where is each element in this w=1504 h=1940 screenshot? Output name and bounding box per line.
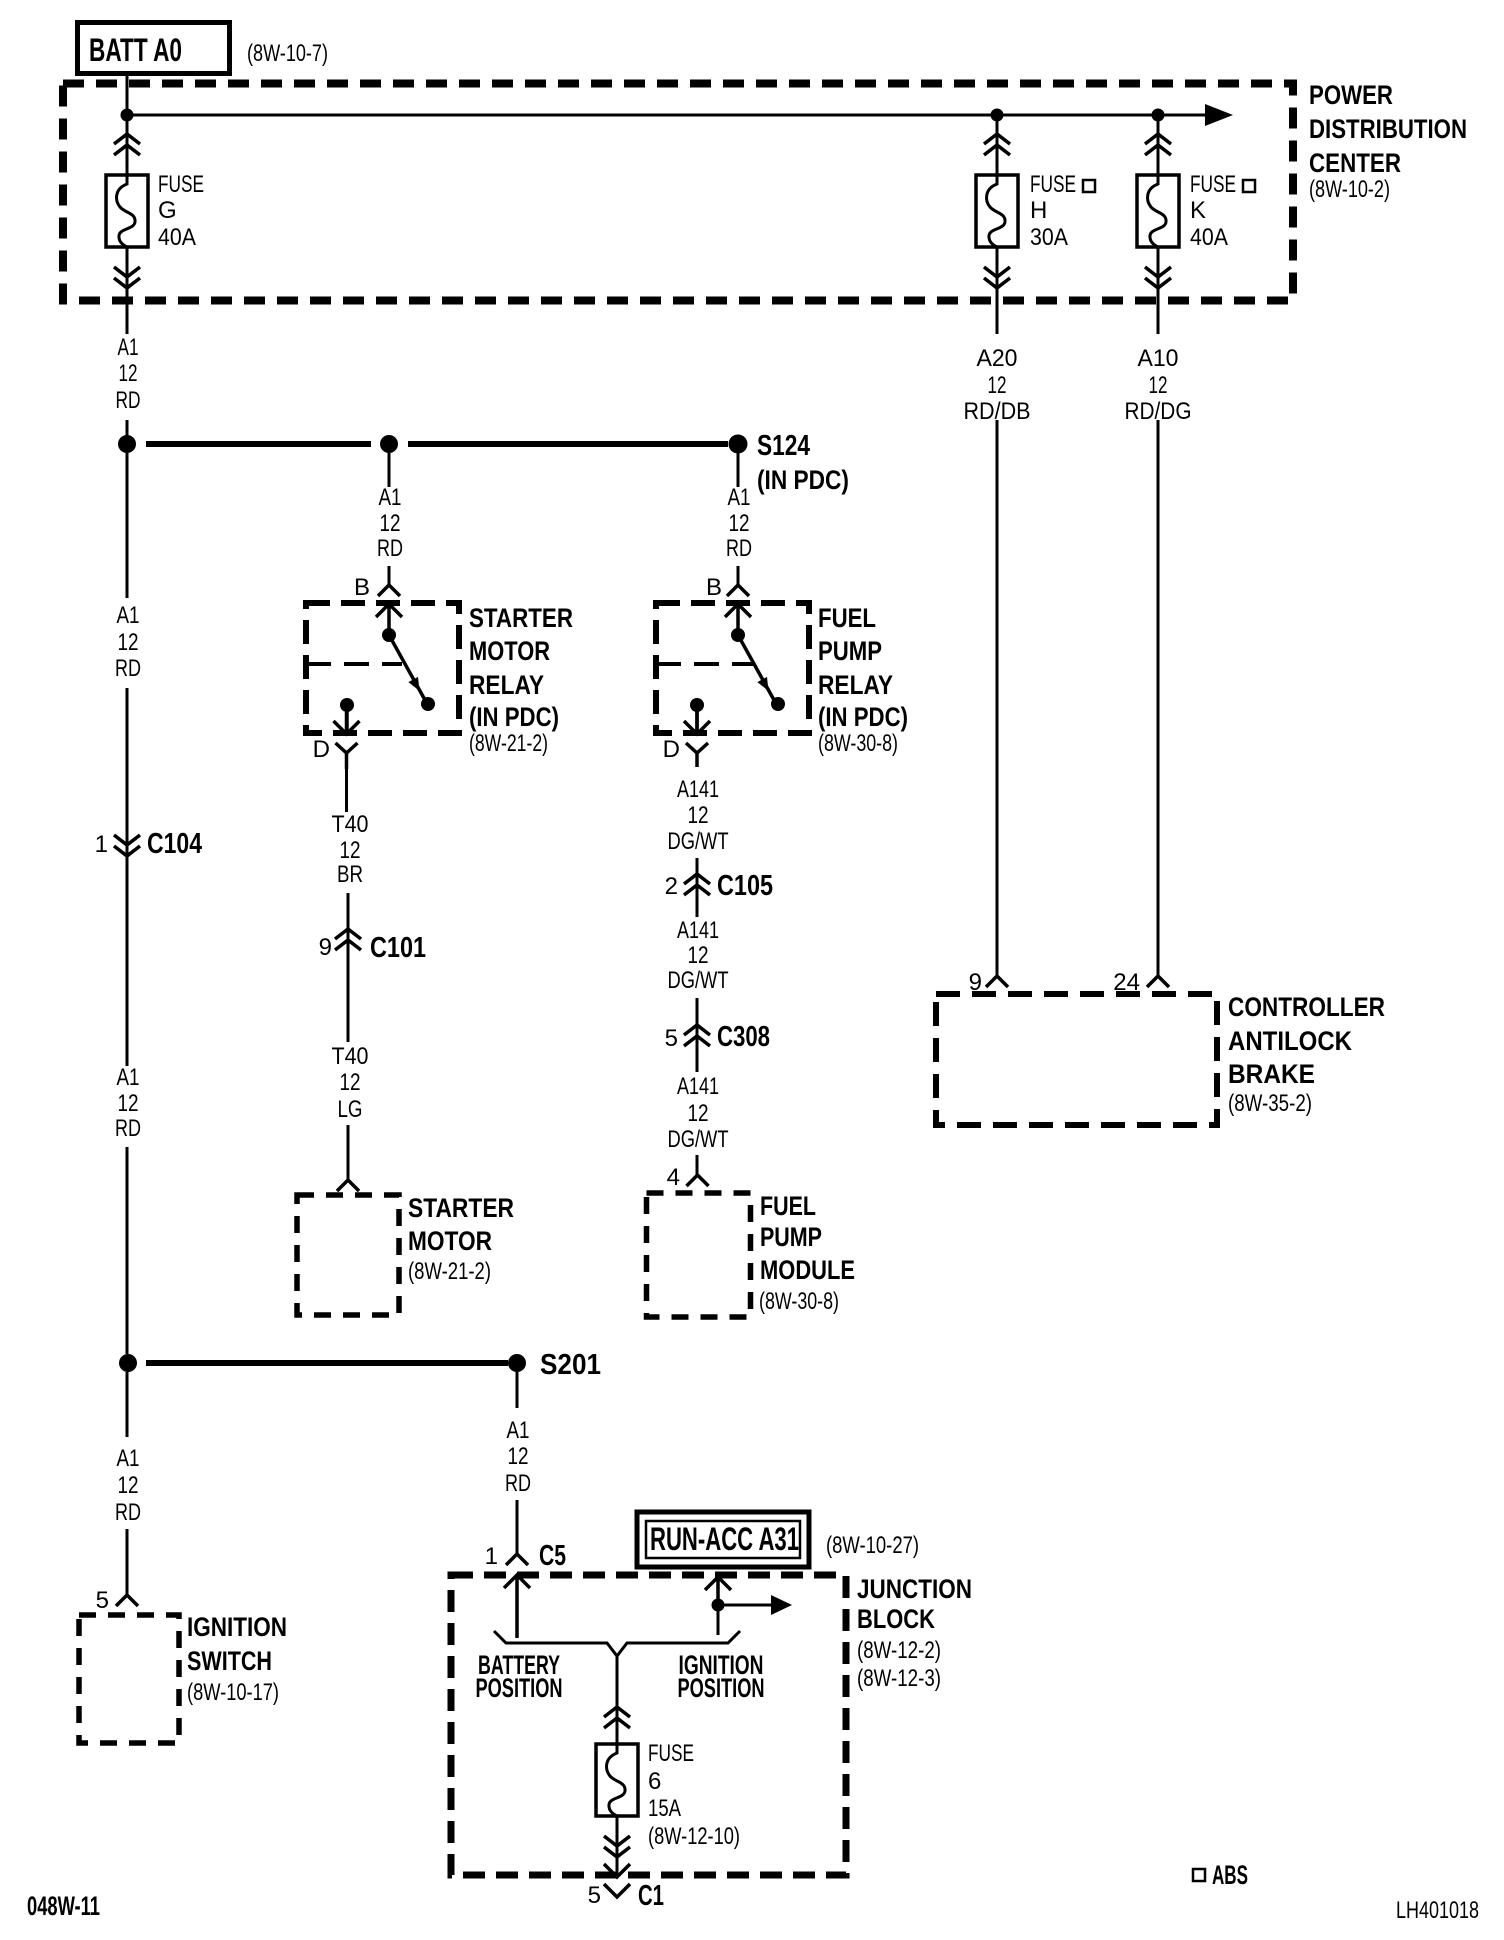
svg-text:T40: T40	[332, 1043, 369, 1070]
pin B connector	[378, 585, 400, 596]
legend ABS	[1193, 1869, 1205, 1881]
svg-text:RD: RD	[505, 1470, 531, 1497]
wire to starter motor	[347, 1125, 350, 1180]
svg-text:PUMP: PUMP	[818, 636, 882, 666]
svg-text:LG: LG	[338, 1096, 363, 1123]
svg-text:(8W-10-27): (8W-10-27)	[826, 1532, 919, 1559]
svg-text:JUNCTION: JUNCTION	[857, 1574, 972, 1604]
wire below fuse	[1157, 247, 1160, 334]
svg-text:BR: BR	[337, 861, 363, 888]
svg-text:FUSE: FUSE	[1030, 171, 1076, 198]
relay common contact	[731, 628, 745, 642]
relay pin B male arrow	[376, 604, 402, 632]
relay NO contact	[771, 697, 785, 711]
relay: starter motor relay box	[306, 603, 459, 733]
arrowhead to other circuits	[771, 1595, 792, 1615]
legend square	[1243, 180, 1255, 192]
svg-text:A1: A1	[117, 1445, 140, 1472]
wire to ignition switch	[126, 1529, 129, 1595]
svg-text:D: D	[663, 736, 680, 763]
relay pin B male arrow	[725, 604, 751, 632]
svg-text:STARTER: STARTER	[408, 1193, 514, 1223]
svg-text:FUEL: FUEL	[818, 603, 876, 633]
svg-text:1: 1	[485, 1543, 498, 1570]
svg-text:12: 12	[729, 510, 750, 537]
svg-text:(8W-35-2): (8W-35-2)	[1228, 1090, 1312, 1117]
splice S124 bus left segment	[146, 441, 371, 447]
fuse H branch wire	[996, 115, 999, 176]
svg-text:(8W-21-2): (8W-21-2)	[408, 1258, 491, 1285]
svg-text:(8W-10-7): (8W-10-7)	[247, 40, 328, 67]
fuse K 40A	[1137, 175, 1179, 247]
svg-text:PUMP: PUMP	[760, 1222, 822, 1252]
relay pin D male arrow	[334, 712, 360, 734]
CAB pin 9 connector	[986, 976, 1008, 987]
node S124	[729, 435, 748, 454]
relay output contact	[690, 698, 704, 712]
svg-text:(8W-21-2): (8W-21-2)	[469, 730, 548, 757]
junction block box	[451, 1575, 846, 1875]
svg-text:T40: T40	[332, 811, 369, 838]
connector C5	[506, 1554, 528, 1565]
junction at fuse K	[1152, 109, 1165, 122]
svg-text:12: 12	[118, 1472, 139, 1499]
relay output contact	[340, 698, 354, 712]
svg-text:C105: C105	[717, 870, 773, 902]
svg-text:40A: 40A	[1190, 224, 1228, 251]
svg-text:C104: C104	[147, 828, 202, 860]
svg-text:(8W-12-2): (8W-12-2)	[857, 1637, 941, 1664]
svg-text:DG/WT: DG/WT	[668, 828, 729, 855]
Power Distribution Center box	[63, 84, 1293, 301]
svg-text:(8W-10-17): (8W-10-17)	[187, 1679, 279, 1706]
relay movable contact	[389, 635, 425, 700]
wire to other circuits	[724, 1604, 771, 1607]
wire A10 down to CAB pin 24	[1157, 420, 1160, 976]
svg-text:5: 5	[665, 1025, 678, 1052]
svg-text:DG/WT: DG/WT	[668, 1126, 729, 1153]
wire A1 left column	[126, 453, 129, 598]
svg-text:FUSE: FUSE	[1190, 171, 1236, 198]
svg-text:(8W-30-8): (8W-30-8)	[818, 730, 898, 757]
svg-text:4: 4	[667, 1164, 680, 1191]
svg-text:(IN PDC): (IN PDC)	[469, 702, 559, 732]
svg-text:12: 12	[1149, 372, 1168, 399]
node S201	[508, 1354, 526, 1372]
svg-text:RD: RD	[116, 387, 141, 414]
wire below S201	[126, 1372, 129, 1437]
junction dot S124 left	[118, 435, 136, 453]
controller antilock brake box	[936, 994, 1217, 1125]
wire to fuel pump module	[696, 1155, 699, 1175]
svg-text:S124: S124	[757, 430, 810, 462]
fuse 6 15A	[596, 1744, 638, 1816]
svg-text:MOTOR: MOTOR	[469, 636, 550, 666]
svg-text:ANTILOCK: ANTILOCK	[1228, 1026, 1352, 1056]
svg-text:IGNITION: IGNITION	[187, 1612, 287, 1642]
svg-text:SWITCH: SWITCH	[187, 1646, 272, 1676]
svg-text:12: 12	[340, 1069, 361, 1096]
svg-text:40A: 40A	[158, 224, 196, 251]
svg-text:DG/WT: DG/WT	[668, 967, 729, 994]
svg-text:A141: A141	[677, 917, 719, 944]
svg-text:FUEL: FUEL	[760, 1191, 816, 1221]
svg-text:BATT A0: BATT A0	[89, 32, 182, 68]
svg-text:RD: RD	[115, 655, 141, 682]
svg-text:CONTROLLER: CONTROLLER	[1228, 992, 1385, 1022]
pin D connector	[336, 743, 358, 769]
fuel pump module box	[647, 1193, 751, 1317]
svg-text:MODULE: MODULE	[760, 1255, 855, 1285]
svg-text:A10: A10	[1138, 345, 1179, 372]
svg-text:12: 12	[988, 372, 1007, 399]
svg-text:12: 12	[118, 629, 139, 656]
svg-text:12: 12	[508, 1443, 529, 1470]
relay: fuel pump relay box	[656, 603, 809, 733]
wire from S124 to fuel pump relay	[737, 453, 740, 487]
svg-text:2: 2	[665, 873, 678, 900]
svg-text:1: 1	[95, 831, 108, 858]
bus bracket	[494, 1631, 740, 1656]
svg-text:12: 12	[118, 1090, 139, 1117]
chevron at junction block edge	[604, 1864, 630, 1877]
svg-text:CENTER: CENTER	[1309, 148, 1401, 178]
wire stub to S124	[126, 420, 129, 436]
wire through C104	[126, 688, 129, 858]
wire to relay pin B	[388, 566, 391, 585]
svg-text:RUN-ACC A31: RUN-ACC A31	[650, 1521, 799, 1557]
wire below C104	[126, 858, 129, 1066]
svg-text:B: B	[354, 574, 370, 601]
bus arrowhead	[1205, 104, 1233, 126]
relay internal divider	[306, 662, 402, 666]
wire from S124 to starter relay	[388, 453, 391, 487]
starter motor pin connector	[337, 1180, 359, 1191]
svg-text:A20: A20	[977, 345, 1018, 372]
relay movable contact	[738, 635, 774, 700]
battery position feed arrow	[504, 1575, 530, 1638]
svg-text:RD: RD	[115, 1115, 141, 1142]
wire A20 down to CAB pin 9	[996, 420, 999, 976]
svg-text:C1: C1	[638, 1880, 664, 1912]
relay contact arrowhead	[757, 677, 773, 694]
svg-text:6: 6	[648, 1768, 661, 1795]
svg-text:FUSE: FUSE	[158, 171, 204, 198]
svg-text:ABS: ABS	[1212, 1860, 1248, 1890]
svg-text:(8W-12-3): (8W-12-3)	[857, 1665, 941, 1692]
svg-text:(8W-30-8): (8W-30-8)	[759, 1288, 839, 1315]
relay NO contact	[421, 697, 435, 711]
svg-text:RELAY: RELAY	[818, 670, 893, 700]
splice S201 bus	[146, 1360, 508, 1366]
wire to C1	[616, 1816, 619, 1876]
fuel pump module pin connector	[687, 1175, 709, 1186]
wire below fuse	[996, 247, 999, 334]
wire to relay pin B	[737, 566, 740, 585]
svg-text:5: 5	[96, 1587, 109, 1614]
svg-text:BRAKE: BRAKE	[1228, 1059, 1315, 1089]
junction at fuse G	[121, 109, 134, 122]
svg-text:MOTOR: MOTOR	[408, 1226, 492, 1256]
fuse G branch wire	[126, 74, 129, 176]
svg-text:(8W-12-10): (8W-12-10)	[648, 1823, 740, 1850]
svg-text:A1: A1	[118, 334, 139, 361]
svg-text:POSITION: POSITION	[678, 1673, 765, 1703]
svg-text:RELAY: RELAY	[469, 670, 544, 700]
CAB pin 24 connector	[1147, 976, 1169, 987]
fuse K branch wire	[1157, 115, 1160, 176]
ignition switch pin connector	[116, 1595, 138, 1606]
svg-text:H: H	[1030, 197, 1047, 224]
svg-text:G: G	[158, 197, 177, 224]
wire through C308	[696, 998, 699, 1072]
starter motor box	[297, 1195, 399, 1315]
svg-text:BLOCK: BLOCK	[857, 1604, 935, 1634]
wire to C5	[516, 1500, 519, 1554]
pin B connector	[727, 585, 749, 596]
svg-text:RD: RD	[726, 535, 752, 562]
svg-text:048W-11: 048W-11	[27, 1891, 100, 1921]
svg-text:(IN PDC): (IN PDC)	[757, 465, 849, 495]
svg-text:A1: A1	[507, 1417, 530, 1444]
wire below fuse	[126, 247, 129, 334]
svg-text:A1: A1	[379, 484, 402, 511]
svg-text:12: 12	[688, 802, 709, 829]
svg-text:POWER: POWER	[1309, 80, 1393, 110]
svg-text:A1: A1	[117, 602, 140, 629]
svg-text:POSITION: POSITION	[476, 1673, 563, 1703]
fuse block RUN-ACC A31 box	[637, 1512, 809, 1567]
svg-text:A141: A141	[677, 776, 719, 803]
junction dot S124 middle	[380, 435, 398, 453]
svg-text:30A: 30A	[1030, 224, 1068, 251]
svg-text:(8W-10-2): (8W-10-2)	[1309, 176, 1390, 203]
ignition position feed arrow	[705, 1577, 731, 1599]
wire through C101	[347, 893, 350, 1042]
relay common contact	[382, 628, 396, 642]
svg-text:S201: S201	[540, 1349, 601, 1381]
svg-text:K: K	[1190, 197, 1206, 224]
splice S124 bus right segment	[408, 441, 728, 447]
svg-text:A1: A1	[117, 1064, 140, 1091]
svg-text:RD: RD	[115, 1499, 141, 1526]
relay contact arrowhead	[408, 677, 424, 694]
svg-text:LH401018: LH401018	[1396, 1897, 1479, 1924]
svg-text:12: 12	[119, 360, 138, 387]
relay output wire	[695, 705, 699, 732]
svg-text:(IN PDC): (IN PDC)	[818, 702, 908, 732]
svg-text:9: 9	[319, 934, 332, 961]
relay output wire	[345, 705, 349, 732]
junction dot S201 left	[119, 1354, 137, 1372]
svg-text:C308: C308	[717, 1021, 770, 1053]
junction in junction block	[712, 1599, 725, 1612]
relay pin D male arrow	[684, 712, 710, 734]
svg-text:12: 12	[380, 510, 401, 537]
svg-text:A1: A1	[728, 484, 751, 511]
wire from S201 to C5	[516, 1372, 519, 1408]
wire to fuse 6	[616, 1656, 619, 1744]
svg-text:15A: 15A	[648, 1795, 681, 1822]
legend square	[1083, 180, 1095, 192]
junction at fuse H	[991, 109, 1004, 122]
relay internal divider	[656, 662, 753, 666]
svg-text:RD: RD	[377, 535, 403, 562]
fuse H 30A	[976, 175, 1018, 247]
svg-text:C101: C101	[370, 932, 426, 964]
svg-text:D: D	[313, 736, 330, 763]
svg-text:12: 12	[688, 1100, 709, 1127]
pin D connector	[686, 743, 708, 767]
wire down to S201	[126, 1147, 129, 1354]
svg-text:FUSE: FUSE	[648, 1740, 694, 1767]
svg-text:12: 12	[688, 942, 709, 969]
node BATT A0 feed box	[78, 23, 230, 74]
svg-text:B: B	[706, 574, 722, 601]
svg-text:12: 12	[340, 837, 361, 864]
wire bus from BATT A0	[127, 114, 1205, 117]
svg-text:DISTRIBUTION: DISTRIBUTION	[1309, 114, 1467, 144]
svg-text:A141: A141	[677, 1073, 719, 1100]
ignition switch box	[79, 1615, 179, 1743]
wire through C105	[696, 858, 699, 917]
wire T40	[345, 769, 348, 812]
svg-text:C5: C5	[539, 1540, 566, 1572]
svg-text:5: 5	[588, 1882, 601, 1909]
fuse G 40A	[106, 175, 148, 247]
svg-text:STARTER: STARTER	[469, 603, 573, 633]
